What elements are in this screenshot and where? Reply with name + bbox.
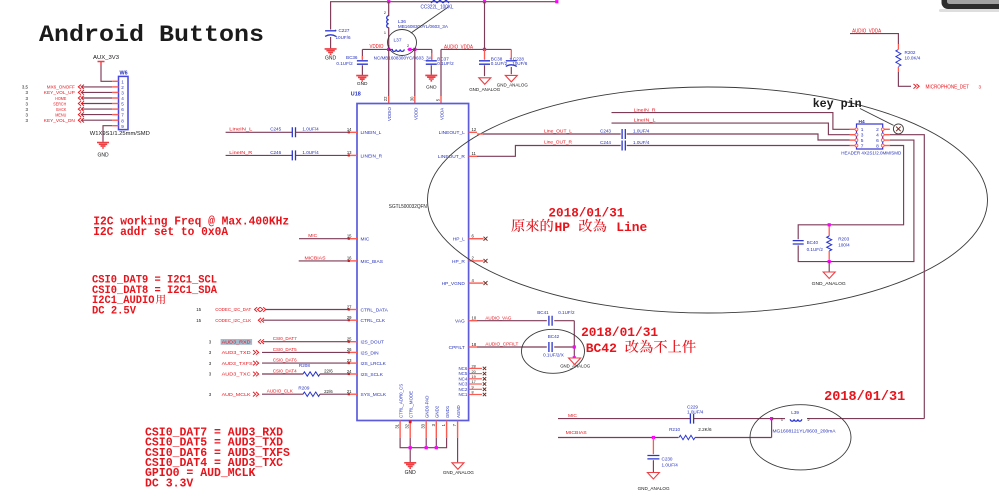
svg-text:7: 7 <box>861 143 864 149</box>
wire AGND to analog ground <box>457 438 459 462</box>
svg-text:GND: GND <box>426 84 437 90</box>
U18 pin 27 CTRL_DATA <box>349 309 358 311</box>
U18 pin 6 HP_L <box>469 238 477 240</box>
svg-text:3: 3 <box>979 84 982 89</box>
svg-text:8: 8 <box>472 391 474 395</box>
ground GND under BC37 <box>425 75 437 80</box>
svg-text:8: 8 <box>121 118 124 123</box>
inductor L36 <box>388 2 390 16</box>
markup ellipse around line-out/header area <box>428 87 988 313</box>
capacitor C230 to analog ground <box>652 436 655 439</box>
wire riser to analog ground <box>573 321 575 358</box>
wire LINEOUT_L to header with capacitor C243 <box>483 133 515 135</box>
wire AUX_3V3 to W6 pin1 <box>101 66 112 81</box>
svg-text:HP_L: HP_L <box>453 237 465 243</box>
analog ground under AGND <box>452 463 464 470</box>
svg-text:Line_OUT_R: Line_OUT_R <box>544 139 572 145</box>
W6 pin 1 <box>112 80 118 82</box>
svg-text:4: 4 <box>876 133 879 139</box>
capacitor C228 <box>510 49 512 59</box>
H4 pin 3 <box>850 134 857 136</box>
wire LINEOUT_R to header with capacitor C244 <box>477 146 621 157</box>
svg-text:VDDA: VDDA <box>440 108 445 120</box>
svg-text:R208: R208 <box>299 363 310 368</box>
svg-text:15: 15 <box>196 307 201 312</box>
key pin circle-X on H4 pin2 <box>893 124 903 134</box>
U18 pin 15 MIC <box>349 238 358 240</box>
U18 pin 14 LINEIN_L <box>349 131 358 133</box>
W6 pin 9 <box>112 125 118 127</box>
U18 pin 18 CPFILT <box>469 346 477 348</box>
svg-text:22/6: 22/6 <box>324 389 333 394</box>
capacitor BC38 <box>484 49 486 59</box>
W6 pin 8 <box>112 119 118 121</box>
svg-text:DC 2.5V: DC 2.5V <box>92 306 137 318</box>
svg-text:GND: GND <box>97 153 109 159</box>
svg-text:AUD3_TXC: AUD3_TXC <box>222 372 252 378</box>
svg-text:27: 27 <box>347 304 352 309</box>
svg-text:1.0UF/4: 1.0UF/4 <box>633 140 650 145</box>
U18 pin 3 GND2 <box>435 421 437 438</box>
svg-text:CODEC_I2C_CLK: CODEC_I2C_CLK <box>215 318 252 324</box>
svg-text:2: 2 <box>876 127 879 133</box>
svg-text:1: 1 <box>384 31 386 35</box>
svg-text:20: 20 <box>472 370 476 374</box>
op-amp codec U18 SGTL5000 body <box>357 104 469 421</box>
svg-text:17: 17 <box>472 380 476 384</box>
svg-text:2: 2 <box>808 418 810 422</box>
ground GND below W6 <box>97 143 109 148</box>
svg-text:1.0UF/4: 1.0UF/4 <box>662 463 679 468</box>
svg-text:33: 33 <box>421 423 426 428</box>
svg-text:1: 1 <box>121 79 124 84</box>
svg-text:0.1UF/2: 0.1UF/2 <box>437 61 454 66</box>
svg-text:22/6: 22/6 <box>324 368 333 373</box>
svg-text:I2C addr set to 0x0A: I2C addr set to 0x0A <box>93 226 228 239</box>
U18 pin 19 NC4 <box>469 378 482 380</box>
resistor R202 <box>897 44 899 49</box>
svg-text:U18: U18 <box>351 92 361 98</box>
svg-text:18: 18 <box>472 342 477 347</box>
svg-text:NC3: NC3 <box>459 382 468 387</box>
svg-text:6: 6 <box>876 138 879 144</box>
svg-text:+ C227: + C227 <box>335 28 350 33</box>
svg-text:KEY_VOL_DN: KEY_VOL_DN <box>44 118 75 123</box>
svg-text:GND_ANALOG: GND_ANALOG <box>812 281 846 287</box>
U18 pin 17 NC3 <box>469 383 482 385</box>
U18 pin 25 I2S_DOUT <box>349 341 358 343</box>
ground GND under BC36 <box>356 76 368 81</box>
svg-text:6: 6 <box>121 107 124 112</box>
markup ellipse around BC42 <box>522 329 585 373</box>
svg-text:DC 3.3V: DC 3.3V <box>145 477 193 490</box>
svg-text:3: 3 <box>121 91 124 96</box>
W6 pin 4 <box>112 97 118 99</box>
svg-text:C244: C244 <box>600 140 611 145</box>
svg-text:10UF/6: 10UF/6 <box>512 61 528 66</box>
U18 pin 16 MIC_BIAS <box>349 260 358 262</box>
analog ground under C228 <box>505 75 517 82</box>
svg-text:MICBIAS: MICBIAS <box>566 430 588 436</box>
svg-text:5: 5 <box>861 138 864 144</box>
U18 pin 9 NC2 <box>469 388 482 390</box>
svg-text:28: 28 <box>472 365 476 369</box>
svg-text:AUD3_TXD: AUD3_TXD <box>222 350 252 356</box>
svg-text:CTRL_CLK: CTRL_CLK <box>361 318 386 324</box>
U18 no-connect X marks HP_L HP_R HP_VGND <box>477 238 484 240</box>
svg-text:0.1UF/2: 0.1UF/2 <box>807 247 824 252</box>
svg-text:15: 15 <box>196 318 201 323</box>
markup ellipse around L39 <box>750 405 851 470</box>
svg-text:NC1: NC1 <box>459 392 468 397</box>
svg-text:LINEOUT_L: LINEOUT_L <box>439 130 465 136</box>
markup pointer line to CC322L label <box>411 7 448 33</box>
svg-text:9: 9 <box>121 124 124 129</box>
U18 pin 26 I2S_DIN <box>349 351 358 353</box>
svg-text:C246: C246 <box>270 150 281 155</box>
ground GND under C227 <box>325 49 337 54</box>
svg-text:HOME: HOME <box>55 96 66 101</box>
svg-text:2018/01/31: 2018/01/31 <box>548 205 624 220</box>
H4 pin 5 <box>850 139 857 141</box>
H4 pin 7 <box>850 145 857 147</box>
capacitor BC40 <box>793 241 804 244</box>
svg-text:5: 5 <box>121 102 124 107</box>
svg-text:SGTL500032QFN: SGTL500032QFN <box>389 204 427 210</box>
svg-text:1: 1 <box>781 418 783 422</box>
svg-text:NC/MB1608300YC/0603_3A: NC/MB1608300YC/0603_3A <box>374 56 432 61</box>
svg-text:CTRL_DATA: CTRL_DATA <box>361 307 389 313</box>
H4 pin 2 <box>883 128 890 130</box>
svg-text:GND: GND <box>325 56 337 62</box>
svg-text:GND: GND <box>405 470 417 476</box>
svg-text:0.1UF/2: 0.1UF/2 <box>336 61 353 66</box>
svg-text:11: 11 <box>472 151 477 156</box>
svg-text:15: 15 <box>347 234 352 239</box>
wire net BACK <box>82 108 112 110</box>
svg-text:R203: R203 <box>838 236 849 241</box>
wire H4 pin4 down to MIC line <box>890 135 924 419</box>
analog ground under C230 <box>647 473 659 480</box>
wire H4 pin6 down right side <box>829 140 914 262</box>
svg-text:7: 7 <box>121 113 124 118</box>
svg-text:21: 21 <box>347 389 352 394</box>
svg-text:4: 4 <box>121 96 124 101</box>
UI button fragment top-right corner <box>939 9 999 12</box>
svg-text:MG1608121YL/0603_200mA: MG1608121YL/0603_200mA <box>773 428 836 433</box>
svg-text:8: 8 <box>876 143 879 149</box>
svg-text:MICROPHONE_DET: MICROPHONE_DET <box>926 84 970 90</box>
wire AUDIO_VDDA to R202 <box>850 34 898 44</box>
svg-text:BC41: BC41 <box>537 310 549 315</box>
svg-text:HP_R: HP_R <box>452 259 465 265</box>
svg-text:GND_ANALOG: GND_ANALOG <box>497 82 528 88</box>
svg-text:10UF/6: 10UF/6 <box>336 35 352 40</box>
wire VDDA pin 5 riser <box>440 49 442 96</box>
H4 pin 1 <box>850 128 857 130</box>
wire MICBIAS riser to MIC line <box>771 419 773 438</box>
svg-text:1.0UF/4: 1.0UF/4 <box>302 127 319 132</box>
svg-text:R210: R210 <box>669 427 680 432</box>
svg-text:32: 32 <box>405 423 410 428</box>
U18 pin 2 HP_R <box>469 260 477 262</box>
wire VDDIO pin 22 riser <box>388 49 390 96</box>
svg-text:2: 2 <box>407 44 409 48</box>
svg-text:MIC: MIC <box>568 413 577 419</box>
W6 pin 5 <box>112 103 118 105</box>
svg-text:VAG: VAG <box>455 319 465 325</box>
svg-text:LINEIN_L: LINEIN_L <box>361 130 382 136</box>
H4 pin 8 <box>883 145 890 147</box>
svg-text:AUD3_TXFS: AUD3_TXFS <box>222 361 253 367</box>
markup ellipse around L37 <box>388 30 417 56</box>
U18 pin 12 LINEOUT_L <box>469 131 477 133</box>
svg-text:13: 13 <box>347 150 352 155</box>
svg-text:AGND: AGND <box>456 405 461 418</box>
svg-text:VDDIO: VDDIO <box>387 107 392 121</box>
svg-text:GND3-PAD: GND3-PAD <box>424 396 429 418</box>
svg-text:2018/01/31: 2018/01/31 <box>581 325 658 340</box>
svg-text:23: 23 <box>347 358 352 363</box>
svg-text:3: 3 <box>861 133 864 139</box>
inductor L37 (NC) <box>392 49 404 51</box>
wire ground bus under U18 <box>400 438 447 448</box>
svg-text:GND2: GND2 <box>435 405 440 418</box>
svg-text:CODEC_I2C_DAT: CODEC_I2C_DAT <box>215 307 251 313</box>
svg-text:GND_ANALOG: GND_ANALOG <box>469 87 500 93</box>
svg-text:key pin: key pin <box>813 97 862 111</box>
svg-text:GND_ANALOG: GND_ANALOG <box>443 470 474 476</box>
svg-text:R209: R209 <box>298 385 309 390</box>
svg-text:24: 24 <box>347 369 352 374</box>
svg-text:CTRL_MODE: CTRL_MODE <box>408 391 413 418</box>
U18 pin 32 CTRL_MODE <box>409 421 411 438</box>
wire H4 pin8 to BC40 R203 box <box>829 146 903 225</box>
svg-text:H4: H4 <box>859 119 865 125</box>
svg-text:1: 1 <box>861 127 864 133</box>
svg-text:10: 10 <box>472 316 477 321</box>
svg-text:I2S_LRCLK: I2S_LRCLK <box>361 361 387 367</box>
svg-text:19: 19 <box>472 375 476 379</box>
svg-text:29: 29 <box>347 315 352 320</box>
U18 pin 21 SYS_MCLK <box>349 393 358 395</box>
resistor R203 <box>828 225 830 236</box>
wire net SERCH <box>82 103 112 105</box>
svg-text:26: 26 <box>347 347 352 352</box>
svg-text:HEADER 4X2S1/2.0MM/SMD: HEADER 4X2S1/2.0MM/SMD <box>841 151 901 156</box>
svg-text:2018/01/31: 2018/01/31 <box>824 390 905 405</box>
U18 pin 7 AGND <box>457 421 459 438</box>
svg-text:AUD3_RXD: AUD3_RXD <box>222 339 252 345</box>
svg-text:SYS_MCLK: SYS_MCLK <box>361 392 387 398</box>
svg-text:I2S_DOUT: I2S_DOUT <box>361 340 385 346</box>
svg-text:1.0UF/4: 1.0UF/4 <box>633 128 650 133</box>
wire AUDIO_VDDA rail <box>441 48 511 50</box>
off-page MICROPHONE_DET <box>914 84 920 89</box>
svg-text:14: 14 <box>347 127 352 132</box>
svg-text:10.0K/4: 10.0K/4 <box>905 56 921 61</box>
U18 pin 31 CTRL_ADR0_CS <box>399 421 401 438</box>
svg-text:BC40: BC40 <box>807 240 819 245</box>
capacitor BC36 <box>361 49 363 59</box>
svg-text:1.0UF/4: 1.0UF/4 <box>687 410 704 415</box>
wire VDDD pin 30 riser <box>414 49 416 96</box>
junction red dot pin32 <box>409 420 412 423</box>
inductor L39 <box>772 418 785 420</box>
wire net KEY_VOL_UP <box>82 91 112 93</box>
svg-text:W1X9S1/1.25mm/SMD: W1X9S1/1.25mm/SMD <box>90 131 150 137</box>
svg-text:BC42: BC42 <box>586 341 617 356</box>
svg-text:GND: GND <box>357 81 368 87</box>
svg-text:BC36: BC36 <box>346 55 358 60</box>
U18 pin 10 VAG <box>469 320 477 322</box>
svg-text:SERCH: SERCH <box>53 101 66 106</box>
ground GND under U18 <box>404 463 416 468</box>
wire VDDIO rail <box>362 48 393 50</box>
red note HP changed to Line <box>511 219 524 232</box>
svg-text:HP_VGND: HP_VGND <box>442 281 466 287</box>
svg-text:9: 9 <box>472 386 474 390</box>
U18 pin 11 LINEOUT_R <box>469 155 477 157</box>
svg-text:R202: R202 <box>905 50 916 55</box>
svg-text:MENU: MENU <box>55 112 66 117</box>
H4 pin 4 <box>883 134 890 136</box>
wire riser from top rail to AUDIO_VDDA <box>484 2 486 50</box>
svg-text:2: 2 <box>384 11 386 15</box>
svg-text:W6: W6 <box>120 71 128 77</box>
svg-text:L37: L37 <box>394 38 402 44</box>
svg-text:CPFILT: CPFILT <box>449 345 465 351</box>
svg-text:MX6_ONOFF: MX6_ONOFF <box>47 85 75 90</box>
junction dots on top rail <box>387 0 390 3</box>
U18 pin 28 NC6 <box>469 367 482 369</box>
svg-text:31: 31 <box>395 423 400 428</box>
svg-text:LINEIN_R: LINEIN_R <box>361 153 383 159</box>
svg-text:12: 12 <box>472 127 477 132</box>
header H4 <box>857 124 883 149</box>
svg-text:16: 16 <box>347 256 352 261</box>
analog ground under BC38 <box>479 78 491 85</box>
svg-text:GND1: GND1 <box>445 405 450 418</box>
svg-text:I2S_SCLK: I2S_SCLK <box>361 372 384 378</box>
svg-text:GND_ANALOG: GND_ANALOG <box>638 486 670 492</box>
wire net KEY_VOL_DN <box>82 119 112 121</box>
U18 pin 20 NC5 <box>469 373 482 375</box>
svg-text:Android Buttons: Android Buttons <box>39 22 264 49</box>
wire net MX6_ONOFF <box>82 86 112 88</box>
svg-text:30: 30 <box>409 96 414 101</box>
wire R202 to MICROPHONE_DET <box>898 72 911 86</box>
svg-text:22: 22 <box>383 96 388 101</box>
svg-text:LINEOUT_R: LINEOUT_R <box>438 154 465 160</box>
svg-text:2.2K/6: 2.2K/6 <box>698 427 712 432</box>
svg-text:KEY_VOL_UP: KEY_VOL_UP <box>44 90 75 95</box>
H4 pin 6 <box>883 139 890 141</box>
svg-text:HP: HP <box>555 220 571 235</box>
svg-text:BACK: BACK <box>56 107 67 112</box>
connector W6 <box>119 76 129 129</box>
W6 pin 3 <box>112 91 118 93</box>
U18 pin 4 HP_VGND <box>469 282 477 284</box>
W6 pin 6 <box>112 108 118 110</box>
svg-text:C245: C245 <box>270 127 281 132</box>
svg-text:0.1UF/2: 0.1UF/2 <box>558 310 575 315</box>
svg-text:0.1UF/2: 0.1UF/2 <box>491 61 508 66</box>
svg-text:25: 25 <box>347 337 352 342</box>
analog ground under BC41 BC42 <box>569 358 581 365</box>
svg-text:2: 2 <box>121 85 124 90</box>
svg-text:100/4: 100/4 <box>838 243 850 248</box>
wire net HOME <box>82 97 112 99</box>
W6 pin 2 <box>112 86 118 88</box>
junction dots on ground bus <box>409 446 412 449</box>
svg-text:I2S_DIN: I2S_DIN <box>361 350 380 356</box>
svg-text:VDDD: VDDD <box>413 108 418 120</box>
U18 pin 8 NC1 <box>469 394 482 396</box>
svg-text:L39: L39 <box>791 410 799 415</box>
svg-text:AUX_3V3: AUX_3V3 <box>93 55 119 61</box>
svg-text:C230: C230 <box>662 457 673 462</box>
wire net MENU <box>82 114 112 116</box>
wire top power rail <box>331 2 557 30</box>
W6 pin 7 <box>112 114 118 116</box>
wire W6 pin9 to GND <box>103 126 112 142</box>
svg-text:C243: C243 <box>600 128 611 133</box>
svg-text:AUD_MCLK: AUD_MCLK <box>222 392 252 398</box>
U18 pin 29 CTRL_CLK <box>349 319 358 321</box>
wire BC40 R203 loop <box>798 225 829 239</box>
svg-text:CC322L_100KL: CC322L_100KL <box>421 4 454 10</box>
U18 pin 33 GND3-PAD <box>425 421 427 438</box>
capacitor C227 <box>325 30 336 32</box>
U18 pin 13 LINEIN_R <box>349 154 358 156</box>
svg-text:3,5: 3,5 <box>22 85 29 90</box>
svg-text:Line: Line <box>616 220 647 235</box>
wire to analog ground <box>828 262 830 272</box>
analog ground under R203 <box>823 272 835 279</box>
svg-text:MIC: MIC <box>361 237 370 243</box>
U18 pin 1 GND1 <box>446 421 448 438</box>
svg-text:0.1UF/2/X: 0.1UF/2/X <box>543 352 564 357</box>
svg-text:MIC_BIAS: MIC_BIAS <box>361 259 383 265</box>
U18 pin 23 I2S_LRCLK <box>349 362 358 364</box>
U18 pin 24 I2S_SCLK <box>349 373 358 375</box>
svg-text:BC42: BC42 <box>548 334 560 339</box>
capacitor BC37 <box>431 49 433 59</box>
svg-text:CTRL_ADR0_CS: CTRL_ADR0_CS <box>398 384 403 418</box>
svg-text:1.0UF/4: 1.0UF/4 <box>302 150 319 155</box>
